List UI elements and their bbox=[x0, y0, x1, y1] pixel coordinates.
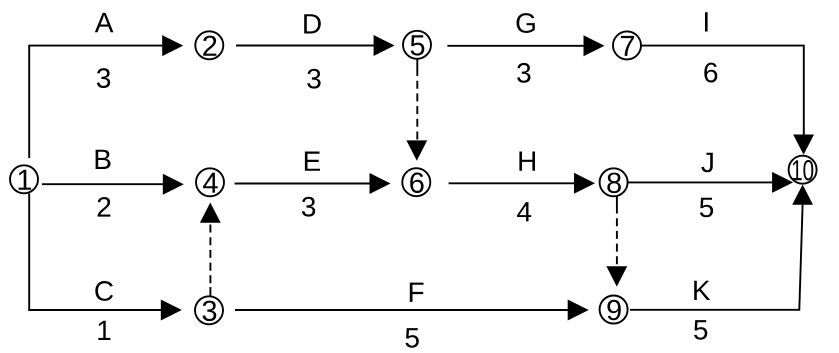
edge E (4 to 6) bbox=[235, 173, 391, 194]
node 4 bbox=[196, 168, 224, 196]
activity label E bbox=[305, 152, 320, 171]
edge A (1 to 2) bbox=[28, 35, 183, 56]
dummy activity dashed arrow 3 to 4 bbox=[200, 203, 221, 296]
duration 3 of D bbox=[307, 69, 320, 89]
node 7 bbox=[613, 31, 641, 59]
dummy activity dashed arrow 5 to 6 bbox=[406, 59, 427, 161]
duration 2 of B bbox=[98, 197, 111, 217]
edge D (2 to 5) bbox=[236, 35, 395, 56]
activity label B bbox=[96, 150, 111, 169]
duration 3 of E bbox=[302, 197, 315, 217]
edge F (3 to 9) bbox=[235, 300, 589, 321]
duration 5 of J bbox=[700, 198, 713, 218]
edge G (5 to 7) bbox=[447, 35, 604, 56]
activity label D bbox=[304, 14, 321, 33]
node 3 bbox=[195, 296, 223, 324]
dummy activity dashed arrow 8 to 9 bbox=[606, 197, 627, 287]
duration 6 of I bbox=[704, 63, 717, 83]
activity label G bbox=[517, 13, 535, 33]
activity label C bbox=[95, 281, 113, 301]
activity label H bbox=[519, 152, 535, 171]
duration 3 of G bbox=[517, 63, 530, 83]
edge K (9 to 10, corner at bottom right then up) bbox=[630, 185, 813, 310]
activity label J bbox=[701, 153, 713, 173]
node 1 bbox=[10, 165, 38, 193]
duration 4 of H bbox=[517, 202, 531, 221]
node 5 bbox=[403, 31, 431, 59]
duration 3 of A bbox=[97, 68, 110, 88]
duration 5 of F bbox=[406, 328, 419, 348]
node 9 bbox=[600, 296, 628, 324]
node 2 bbox=[195, 31, 223, 59]
duration 1 of C bbox=[98, 321, 110, 340]
node 8 bbox=[600, 168, 628, 196]
wire left vertical trunk from node 1 up to row 1 and down to row 3 bbox=[28, 46, 30, 310]
node 10 bbox=[789, 156, 817, 184]
activity label K bbox=[694, 281, 710, 300]
edge H (6 to 8) bbox=[449, 173, 595, 194]
node 6 bbox=[402, 168, 430, 196]
edge J (8 to 10) bbox=[628, 172, 793, 193]
duration 5 of K bbox=[694, 320, 707, 340]
activity label F bbox=[410, 283, 424, 302]
activity label A bbox=[95, 13, 114, 32]
edge B (1 to 4) bbox=[42, 174, 184, 195]
edge I (7 to 10, corner at top right) bbox=[641, 46, 814, 155]
activity label I bbox=[705, 12, 708, 31]
edge C (1 to 3) bbox=[28, 300, 182, 321]
